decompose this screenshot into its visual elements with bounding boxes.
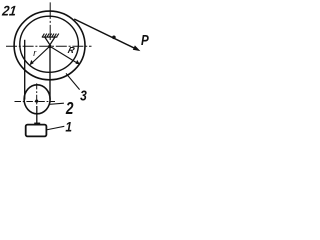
force P arrowhead [133, 45, 141, 51]
support triangle [45, 37, 55, 45]
radius R arrowhead [76, 60, 80, 64]
pivot pin dot [48, 45, 51, 48]
pulley center dot [35, 100, 38, 103]
label 2 [65, 99, 74, 118]
ceiling hatching [42, 34, 59, 37]
dot on force line [112, 36, 116, 40]
radius R line [50, 46, 77, 63]
pulley horizontal centerline [15, 101, 56, 103]
vertical centerline [49, 2, 51, 40]
svg-text:2: 2 [65, 99, 74, 118]
force P line [74, 19, 136, 49]
label P [141, 32, 149, 49]
label 3 [80, 87, 87, 104]
wheel inner circle (drum r) [20, 16, 79, 72]
horizontal centerline [6, 45, 92, 47]
leader line 1 [46, 126, 64, 130]
ceiling bar [42, 36, 58, 38]
figure number 21 [1, 3, 18, 19]
pulley 2 circle [24, 85, 50, 114]
svg-text:3: 3 [80, 87, 87, 104]
left rope [24, 40, 26, 100]
pulley vertical centerline [36, 83, 38, 106]
label 1 [65, 119, 72, 135]
rope end T-bar [34, 122, 40, 124]
wheel outer circle (rim R) [14, 11, 85, 80]
rope pulley to weight [36, 106, 38, 125]
svg-text:P: P [141, 32, 149, 49]
leader line 3 [66, 73, 80, 89]
radius r arrowhead [30, 60, 34, 65]
leader line 2 [49, 103, 64, 104]
svg-text:21: 21 [1, 3, 18, 19]
svg-text:1: 1 [65, 119, 72, 135]
weight 1 rectangle [26, 125, 47, 137]
right rope [49, 46, 51, 99]
radius r line [32, 46, 50, 63]
